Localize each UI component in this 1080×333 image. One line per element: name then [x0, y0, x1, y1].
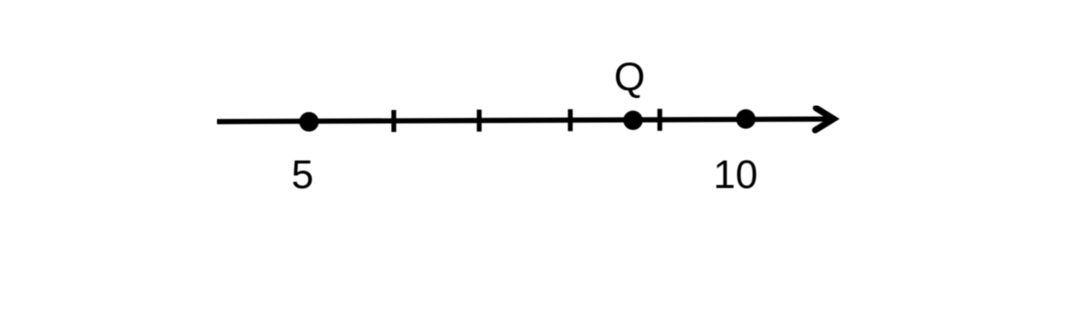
node B	[477, 110, 482, 132]
wire	[217, 119, 833, 122]
node Q	[623, 111, 642, 130]
wire arrowhead	[815, 108, 833, 130]
node C	[568, 109, 573, 131]
svg-text:5: 5	[291, 153, 313, 197]
svg-text:Q: Q	[614, 56, 645, 100]
node 10	[736, 109, 755, 128]
node D	[657, 109, 662, 131]
svg-text:10: 10	[713, 153, 758, 197]
node A	[391, 110, 396, 132]
node 5	[299, 112, 319, 132]
